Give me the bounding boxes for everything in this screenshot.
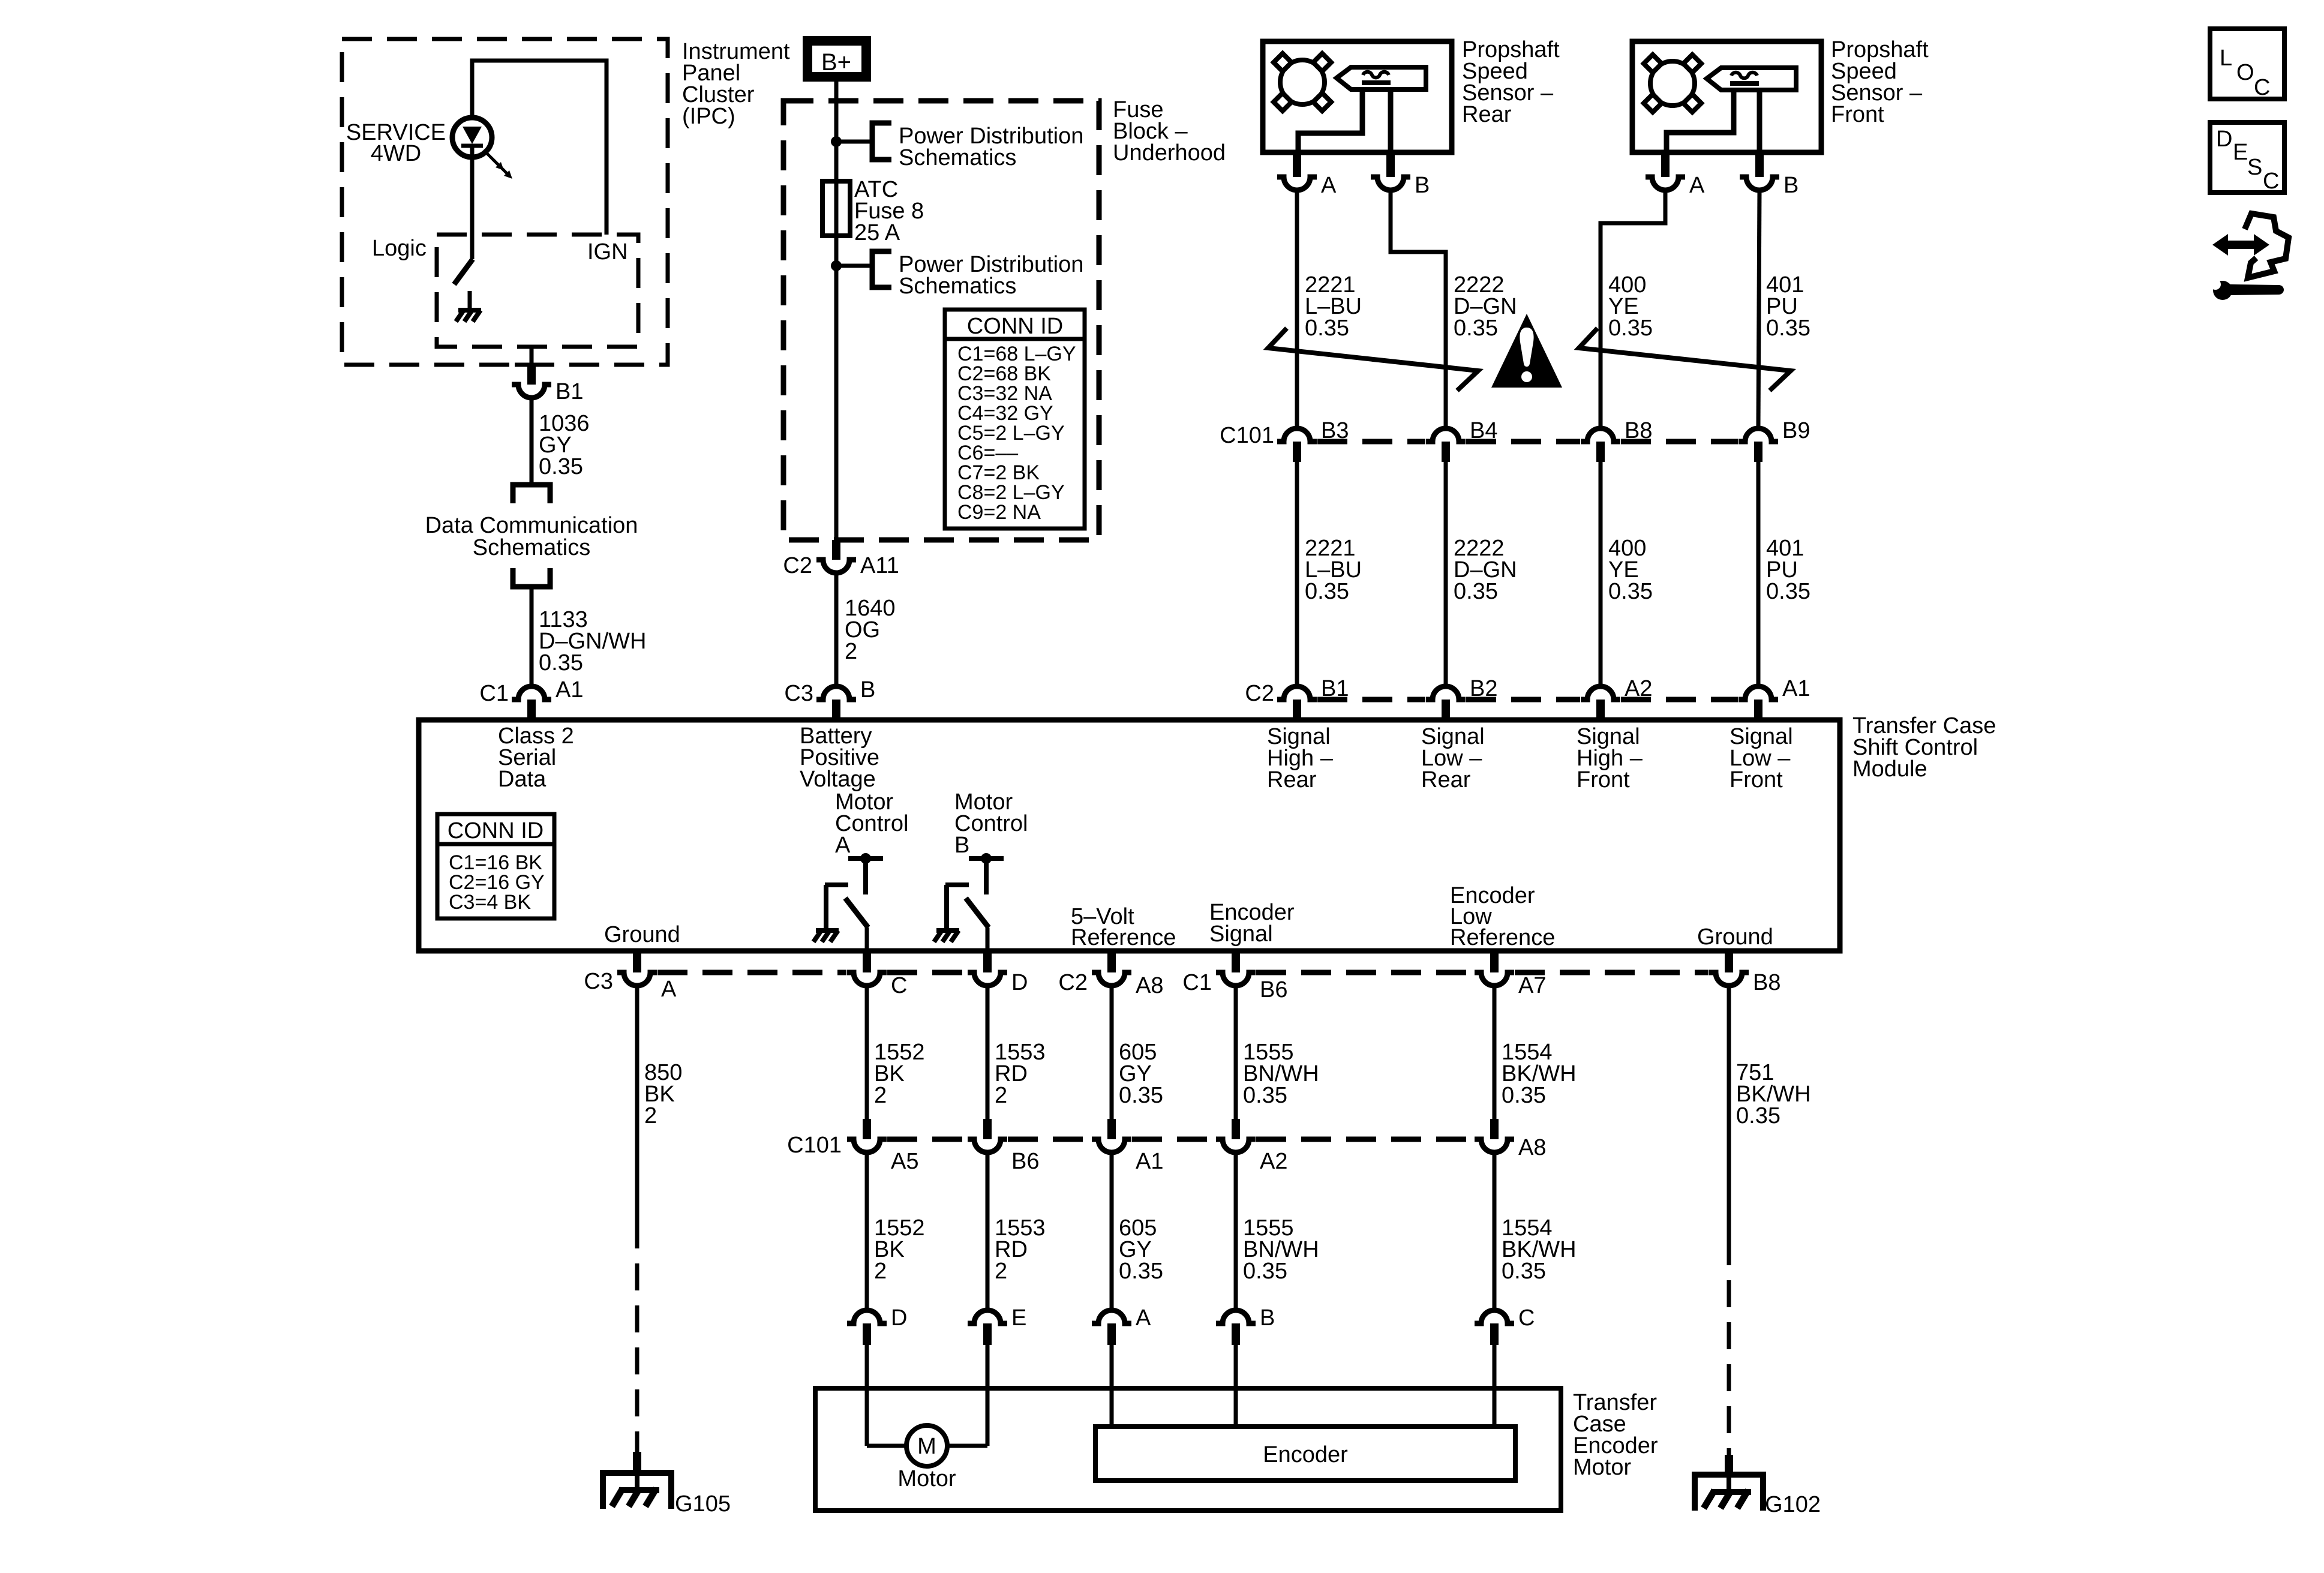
junction dot lower (831, 260, 842, 271)
svg-text:0.35: 0.35 (1502, 1259, 1546, 1284)
connector C3 B dome (816, 686, 856, 720)
wire 1554 lower segment (1493, 1152, 1497, 1310)
wire E to motor (947, 1345, 987, 1446)
connector module-bottom B6 pin (1232, 951, 1240, 972)
wire 850 dashed (not shown) (635, 1221, 639, 1452)
off-page bracket Power Distribution lower (872, 251, 891, 287)
svg-text:Front: Front (1730, 767, 1783, 792)
label wire 401 PU 0.35 lower (1766, 536, 1810, 604)
label C101 (row 2) (787, 1133, 842, 1158)
wire 1036 (530, 398, 534, 485)
svg-text:Data: Data (498, 767, 547, 792)
CONN ID table (module) (437, 814, 554, 918)
label pin B8 module bottom (1753, 970, 1780, 995)
label wire 1554 upper (1502, 1040, 1577, 1108)
LED indicator SERVICE 4WD (452, 118, 492, 157)
Instrument Panel Cluster (IPC) dashed box (342, 39, 668, 365)
svg-text:Rear: Rear (1421, 767, 1471, 792)
wire 850 stub (633, 1452, 641, 1473)
wire G105 into ground (635, 1473, 639, 1490)
label wire 1036 GY 0.35 (539, 411, 590, 479)
wire 401 upper (1758, 190, 1759, 426)
label wire 401 PU 0.35 upper (1766, 272, 1810, 341)
wire 1552 upper segment (865, 986, 869, 1119)
label pin B6 row2 (1011, 1149, 1039, 1174)
sensor connector A pin (1661, 152, 1670, 177)
svg-text:Voltage: Voltage (800, 767, 876, 792)
label wire 1133 D-GN/WH 0.35 (539, 607, 646, 676)
svg-text:Motor: Motor (1573, 1455, 1631, 1480)
label Battery Positive Voltage (800, 724, 879, 792)
wire G102 into ground (1727, 1475, 1731, 1492)
label C2 (783, 553, 812, 578)
connector C101 B6 cup (968, 1139, 1007, 1152)
connector C101 A2 cup (1216, 1139, 1256, 1152)
svg-text:Logic: Logic (372, 236, 427, 261)
svg-text:2: 2 (995, 1259, 1007, 1284)
front sensor pickup symbol (1707, 68, 1796, 90)
label pin B3 (1321, 418, 1349, 443)
Logic dashed box (437, 235, 638, 347)
motor control B driver switch (934, 853, 1004, 951)
C101 dashed bus row1 (1317, 439, 1738, 445)
svg-text:4WD: 4WD (371, 141, 421, 166)
chassis ground in logic box (456, 310, 481, 322)
label pin A8 module bottom (1136, 973, 1163, 998)
label Transfer Case Encoder Motor (1573, 1390, 1658, 1480)
svg-text:C2: C2 (1058, 970, 1088, 995)
label A1 (556, 677, 583, 703)
svg-text:A: A (835, 833, 851, 858)
connector module-bottom A7 pin (1490, 951, 1499, 972)
LED light arrows (484, 150, 512, 179)
wire 1133 (530, 587, 534, 684)
label pin B4 (1470, 418, 1497, 443)
svg-text:C: C (891, 973, 907, 998)
connector module-bottom A pin (633, 951, 641, 972)
svg-text:C2: C2 (1245, 681, 1274, 706)
svg-text:C101: C101 (1220, 423, 1274, 448)
C101 dashed bus row2 (887, 1137, 1474, 1142)
label wire 1552 upper (874, 1040, 925, 1108)
label Data Communication Schematics (425, 513, 638, 560)
svg-text:C3: C3 (584, 969, 613, 994)
label pin C encoder motor (1518, 1305, 1535, 1331)
wire C to encoder (1493, 1345, 1497, 1427)
connector module-top B1 dome (1277, 686, 1317, 720)
rear sensor internal wire to pin A (1298, 89, 1362, 152)
label Class 2 Serial Data (498, 724, 574, 792)
svg-text:0.35: 0.35 (1766, 316, 1810, 341)
wire D to motor (867, 1345, 906, 1446)
connector module-bottom B8 pin (1725, 951, 1733, 972)
wire 1553 upper segment (986, 986, 990, 1119)
front sensor internal wire to pin B (1757, 90, 1762, 152)
svg-text:Schematics: Schematics (899, 145, 1016, 170)
label Transfer Case Shift Control Module (1852, 713, 1996, 782)
label wire 2221 L-BU 0.35 upper (1305, 272, 1362, 341)
svg-text:E: E (1011, 1305, 1026, 1331)
connector module-bottom A7 cup (1475, 972, 1514, 986)
svg-text:E: E (2233, 140, 2248, 165)
label wire 605 lower (1119, 1215, 1163, 1284)
connector B1 cup (512, 385, 551, 398)
svg-text:C: C (2254, 75, 2270, 100)
connector module-top A2 dome (1581, 686, 1620, 720)
connector module-bottom C pin (863, 951, 871, 972)
motor control A driver switch (813, 853, 883, 951)
wire 751 solid (1727, 986, 1731, 1238)
svg-text:IGN: IGN (587, 239, 628, 265)
label Ground (left) (604, 922, 680, 947)
label C1 (module bottom) (1182, 970, 1212, 995)
label pin A1 module top (1782, 676, 1810, 701)
svg-text:0.35: 0.35 (1119, 1083, 1163, 1108)
connector C101 B6 pin (983, 1119, 992, 1139)
label wire 1554 lower (1502, 1215, 1577, 1284)
svg-text:B: B (1783, 173, 1798, 198)
svg-text:A1: A1 (556, 677, 583, 703)
svg-text:Rear: Rear (1267, 767, 1317, 792)
svg-text:0.35: 0.35 (1608, 579, 1653, 604)
label Power Distribution Schematics upper (899, 124, 1083, 170)
svg-text:0.35: 0.35 (1766, 579, 1810, 604)
svg-text:C101: C101 (787, 1133, 842, 1158)
svg-text:L: L (2220, 46, 2232, 71)
svg-text:0.35: 0.35 (1502, 1083, 1546, 1108)
motor M (906, 1425, 947, 1466)
label pin B2 module top (1470, 676, 1497, 701)
connector encoder-motor B dome (1216, 1310, 1256, 1345)
svg-text:A8: A8 (1518, 1135, 1546, 1160)
label Encoder Low Reference (1450, 883, 1555, 950)
svg-text:G105: G105 (675, 1491, 731, 1517)
label pin B1 module top (1321, 676, 1349, 701)
Transfer Case Encoder Motor box (815, 1388, 1561, 1511)
svg-text:B9: B9 (1782, 418, 1810, 443)
wire 1640 (834, 573, 839, 684)
branch wire to Power Distribution (upper) (836, 140, 872, 144)
label C3 (module bottom) (584, 969, 613, 994)
svg-text:Motor: Motor (897, 1466, 956, 1491)
svg-text:C: C (1518, 1305, 1535, 1331)
connector module-bottom D pin (983, 951, 992, 972)
label IGN (587, 239, 628, 265)
label Fuse Block - Underhood (1113, 97, 1226, 166)
svg-text:B: B (1415, 173, 1430, 198)
svg-text:D: D (891, 1305, 907, 1331)
off-page bracket Power Distribution upper (872, 123, 891, 160)
label sensor pin B (1415, 173, 1430, 198)
svg-text:25 A: 25 A (854, 220, 900, 245)
label Logic (372, 236, 427, 261)
label wire 400 YE 0.35 upper (1608, 272, 1653, 341)
label Encoder (1263, 1442, 1348, 1467)
label C1 (479, 681, 509, 706)
label G102 (1765, 1492, 1821, 1517)
svg-text:Reference: Reference (1071, 925, 1176, 950)
label sensor pin A (1321, 173, 1337, 198)
label pin A module bottom (661, 977, 677, 1002)
connector module-bottom C cup (847, 972, 887, 986)
svg-text:O: O (2236, 60, 2254, 85)
label wire 1552 lower (874, 1215, 925, 1284)
svg-text:0.35: 0.35 (539, 650, 583, 676)
ground G105 (603, 1473, 671, 1509)
label 5-Volt Reference (1071, 904, 1176, 950)
wire to module (signal) (1295, 462, 1299, 684)
connector C101 A1 cup (1092, 1139, 1131, 1152)
connector C101 B4 dome (1426, 428, 1466, 462)
label Motor Control A (835, 789, 909, 858)
wire 751 stub (1725, 1455, 1733, 1475)
label pin D encoder motor (891, 1305, 907, 1331)
wire 751 dashed (not shown) (1727, 1238, 1731, 1455)
label Power Distribution Schematics lower (899, 252, 1083, 299)
label SERVICE 4WD (346, 120, 446, 166)
wire 605 upper segment (1110, 986, 1114, 1119)
rear sensor internal wire to pin B (1388, 89, 1394, 152)
switch (logic-driven) in IPC (454, 259, 473, 284)
svg-text:Ground: Ground (1697, 924, 1773, 950)
connector C101 A2 pin (1232, 1119, 1240, 1139)
svg-text:Encoder: Encoder (1263, 1442, 1348, 1467)
svg-text:2: 2 (874, 1083, 887, 1108)
svg-text:Front: Front (1831, 102, 1884, 127)
label Propshaft Speed Sensor - Front (1831, 37, 1929, 127)
label B1 (556, 379, 583, 404)
harness repair icon (arrow, connector outline, wrench) (2210, 214, 2289, 300)
off-page bracket from Data Communication (513, 568, 550, 587)
connector module-bottom A8 pin (1107, 951, 1116, 972)
sensor connector A pin (1293, 152, 1301, 177)
label wire 2222 D-GN 0.35 lower (1454, 536, 1517, 604)
svg-text:A1: A1 (1136, 1149, 1163, 1174)
wire to module (signal) (1599, 462, 1603, 684)
connector module-bottom B8 cup (1709, 972, 1749, 986)
label sensor pin A (1689, 173, 1705, 198)
svg-text:C9=2 NA: C9=2 NA (957, 501, 1041, 524)
label pin A encoder motor (1136, 1305, 1151, 1331)
wire to module (signal) (1756, 462, 1761, 684)
svg-text:2: 2 (644, 1103, 657, 1128)
B+ battery feed box (807, 41, 866, 77)
wire 605 lower segment (1110, 1152, 1114, 1310)
label pin D module bottom (1011, 970, 1028, 995)
label pin A2 row2 (1260, 1149, 1287, 1174)
label C101 (row 1) (1220, 423, 1274, 448)
rear sensor reluctor gear (1274, 53, 1331, 111)
connector module-top A1 dome (1739, 686, 1778, 720)
label wire 1640 OG 2 (845, 596, 896, 664)
label pin B9 (1782, 418, 1810, 443)
label pin B encoder motor (1260, 1305, 1275, 1331)
connector encoder-motor E dome (968, 1310, 1007, 1345)
label wire 2221 L-BU 0.35 lower (1305, 536, 1362, 604)
Fuse Block - Underhood dashed box (783, 101, 1099, 540)
label wire 2222 D-GN 0.35 upper (1454, 272, 1517, 341)
twisted pair symbol front (1579, 328, 1791, 391)
label pin A8 row2 (1518, 1135, 1546, 1160)
label pin A7 module bottom (1518, 973, 1546, 998)
label wire 1553 upper (995, 1040, 1046, 1108)
svg-text:A7: A7 (1518, 973, 1546, 998)
connector C101 A1 pin (1107, 1119, 1116, 1139)
sensor connector A cup (1646, 177, 1685, 190)
connector C101 A8 cup (1475, 1139, 1514, 1152)
label Motor (897, 1466, 956, 1491)
wire 2222 upper with jog (1391, 190, 1446, 426)
svg-text:A: A (1689, 173, 1705, 198)
svg-text:2: 2 (874, 1259, 887, 1284)
wire 850 solid (635, 986, 639, 1221)
wire B to encoder (1234, 1345, 1238, 1427)
connector C101 A5 cup (847, 1139, 887, 1152)
svg-text:Data Communication: Data Communication (425, 513, 638, 538)
connector C101 A8 pin (1490, 1119, 1499, 1139)
svg-text:A8: A8 (1136, 973, 1163, 998)
wire 2221 upper (1295, 190, 1299, 426)
svg-text:Schematics: Schematics (899, 274, 1016, 299)
label G105 (675, 1491, 731, 1517)
label pin A1 row2 (1136, 1149, 1163, 1174)
svg-text:0.35: 0.35 (1119, 1259, 1163, 1284)
connector C101 B8 dome (1581, 428, 1620, 462)
svg-text:0.35: 0.35 (1454, 579, 1498, 604)
module top dashed bus (1317, 697, 1738, 703)
connector encoder-motor D dome (847, 1310, 887, 1345)
label pin E encoder motor (1011, 1305, 1026, 1331)
connector C101 A5 pin (863, 1119, 871, 1139)
wire 1554 upper segment (1493, 986, 1497, 1119)
svg-text:CONN ID: CONN ID (448, 818, 544, 843)
svg-text:0.35: 0.35 (1305, 579, 1349, 604)
connector C101 B3 dome (1277, 428, 1317, 462)
junction dot upper (831, 136, 842, 147)
twisted pair symbol rear (1268, 328, 1478, 391)
ground G102 (1695, 1475, 1763, 1511)
svg-text:A5: A5 (891, 1149, 918, 1174)
sensor connector B pin (1755, 152, 1764, 177)
svg-text:Underhood: Underhood (1113, 140, 1226, 166)
svg-text:A: A (1136, 1305, 1151, 1331)
Encoder box (1095, 1427, 1515, 1481)
svg-text:B: B (954, 833, 969, 858)
connector module-bottom B6 cup (1216, 972, 1256, 986)
label wire 850 BK 2 (644, 1060, 682, 1128)
label Ground (right) (1697, 924, 1773, 950)
svg-text:S: S (2247, 155, 2262, 180)
label ATC Fuse 8 25 A (854, 177, 924, 245)
label pin A5 row2 (891, 1149, 918, 1174)
connector module-bottom D cup (968, 972, 1007, 986)
CONN ID table (fuse block) (945, 310, 1085, 529)
warning triangle (1491, 314, 1562, 388)
IPC border dash at B1 crossing (515, 363, 548, 367)
label sensor pin B (1783, 173, 1798, 198)
label wire 1555 lower (1243, 1215, 1319, 1284)
svg-text:B: B (860, 677, 875, 703)
label A11 (860, 553, 899, 578)
svg-text:D: D (1011, 970, 1028, 995)
label Signal High - Rear (1267, 724, 1334, 792)
DESC reference box (2210, 122, 2284, 194)
label Signal High - Front (1577, 724, 1643, 792)
front sensor internal wire to pin A (1667, 90, 1734, 152)
connector C1 A1 dome (512, 686, 551, 720)
svg-text:A11: A11 (860, 553, 899, 578)
label wire 1553 lower (995, 1215, 1046, 1284)
label pin B8 (1625, 418, 1652, 443)
label Signal Low - Rear (1421, 724, 1485, 792)
connector C101 B9 dome (1739, 428, 1778, 462)
Propshaft Speed Sensor - Front box (1632, 41, 1821, 152)
svg-text:Signal: Signal (1209, 921, 1273, 947)
svg-text:Front: Front (1577, 767, 1630, 792)
wire: logic box to IPC edge (530, 347, 534, 365)
connector module-top B2 dome (1426, 686, 1466, 720)
wire 1552 lower segment (865, 1152, 869, 1310)
svg-text:C1: C1 (1182, 970, 1212, 995)
sensor connector B cup (1740, 177, 1779, 190)
connector B1 pin (527, 365, 536, 385)
label B (battery col) (860, 677, 875, 703)
label C2 (module bottom) (1058, 970, 1088, 995)
svg-text:2: 2 (845, 639, 857, 664)
svg-text:Reference: Reference (1450, 925, 1555, 950)
Propshaft Speed Sensor - Rear box (1263, 41, 1452, 152)
wire 1553 lower segment (986, 1152, 990, 1310)
svg-text:D: D (2216, 127, 2232, 152)
svg-text:A2: A2 (1260, 1149, 1287, 1174)
label C3 (battery col) (784, 681, 813, 706)
svg-text:2: 2 (995, 1083, 1007, 1108)
connector C2 A11 cup (816, 560, 856, 573)
svg-text:0.35: 0.35 (1454, 316, 1498, 341)
svg-text:C3=4 BK: C3=4 BK (449, 891, 531, 914)
svg-text:C2: C2 (783, 553, 812, 578)
connector encoder-motor C dome (1475, 1310, 1514, 1345)
svg-text:Module: Module (1852, 757, 1927, 782)
svg-text:Ground: Ground (604, 922, 680, 947)
svg-text:B6: B6 (1011, 1149, 1039, 1174)
wire 1555 lower segment (1234, 1152, 1238, 1310)
svg-text:C3: C3 (784, 681, 813, 706)
connector encoder-motor A dome (1092, 1310, 1131, 1345)
svg-text:A1: A1 (1782, 676, 1810, 701)
LOC reference box (2210, 29, 2284, 100)
label wire 1555 upper (1243, 1040, 1319, 1108)
label Propshaft Speed Sensor - Rear (1462, 37, 1560, 127)
wire 1555 upper segment (1234, 986, 1238, 1119)
off-page bracket to Data Communication (513, 485, 550, 503)
connector module-bottom A cup (617, 972, 657, 986)
wire: IPC internal loop (LED supply from IGN) (472, 61, 606, 235)
svg-text:M: M (917, 1434, 936, 1459)
label wire 751 BK/WH 0.35 (1736, 1060, 1811, 1128)
svg-text:B: B (1260, 1305, 1275, 1331)
svg-text:Schematics: Schematics (473, 535, 590, 560)
label wire 400 YE 0.35 lower (1608, 536, 1653, 604)
Transfer Case Shift Control Module box (419, 720, 1840, 951)
sensor connector B cup (1371, 177, 1410, 190)
front sensor reluctor gear (1644, 55, 1701, 112)
IPC label (682, 39, 790, 129)
rear sensor pickup symbol (1337, 67, 1426, 89)
svg-text:C: C (2263, 169, 2279, 194)
svg-text:B6: B6 (1260, 977, 1287, 1002)
wire to module (signal) (1444, 462, 1448, 684)
